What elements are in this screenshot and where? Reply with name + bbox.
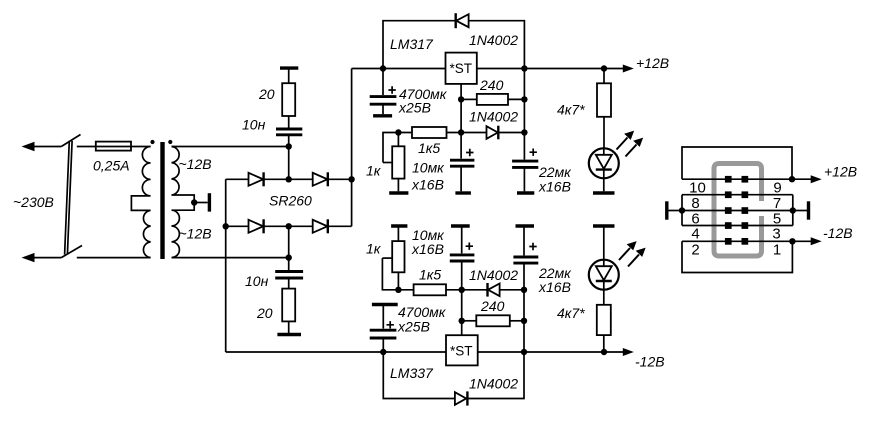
- svg-text:+12В: +12В: [824, 164, 857, 180]
- LED HL1: [589, 148, 619, 191]
- arrow -12V connector: [792, 237, 821, 245]
- terminal bar C1 ground: [373, 114, 392, 117]
- svg-text:10н: 10н: [242, 117, 266, 133]
- resistor 20 top: [282, 83, 295, 116]
- svg-text:2: 2: [691, 242, 699, 259]
- pin 6: [725, 207, 732, 214]
- svg-text:1к5: 1к5: [419, 267, 441, 283]
- capacitor C4 4700мк x25В bottom: [370, 305, 398, 353]
- wire right gnd column: [792, 195, 794, 226]
- capacitor 10н top: [276, 129, 302, 135]
- arrow +12V output: [623, 65, 634, 73]
- wire ADJ vertical bottom: [461, 290, 463, 335]
- svg-text:1N4002: 1N4002: [469, 32, 518, 48]
- wire secondary top to bridge: [172, 146, 289, 148]
- resistor R1 240: [477, 94, 508, 105]
- wire +raw rail: [352, 68, 446, 70]
- svg-text:4: 4: [691, 226, 699, 243]
- pin 8: [725, 191, 732, 198]
- node ADJ 240 left bottom: [459, 318, 465, 324]
- transformer T1 primary winding: [131, 147, 150, 258]
- wire adj row left bottom: [382, 258, 413, 290]
- wire snubber top: [288, 68, 290, 83]
- node ADJ 240 left: [458, 96, 464, 102]
- protection diode VD3 1N4002 bottom: [455, 391, 468, 405]
- node bridge plus: [348, 176, 354, 182]
- diode VD2 1N4002 middle top: [487, 126, 499, 140]
- svg-text:3: 3: [772, 226, 780, 243]
- wire row pins 6 5: [682, 210, 793, 212]
- center tap wire: [194, 202, 207, 204]
- capacitor 10н bottom: [275, 258, 303, 289]
- wire row pins 2 1: [682, 240, 792, 242]
- wire bypass diode loop top: [383, 21, 524, 69]
- svg-text:20: 20: [256, 305, 273, 321]
- wire output vertical to adj row: [523, 69, 525, 133]
- trimmer R3 1к top: [383, 133, 405, 192]
- fuse FU1 0,25A: [96, 142, 131, 151]
- resistor R8 4к7 bottom: [597, 290, 611, 352]
- wire right gnd terminal: [793, 210, 807, 212]
- node AC2: [286, 254, 292, 260]
- pin 2: [725, 238, 732, 245]
- terminal bar center tap: [208, 193, 211, 211]
- wire diode to output column: [498, 132, 524, 134]
- svg-text:1к5: 1к5: [418, 140, 440, 156]
- svg-text:7: 7: [773, 195, 781, 212]
- pin 9: [742, 176, 749, 183]
- terminal bar HL2 ground: [593, 224, 615, 227]
- node bridge AC2 bottom: [286, 223, 292, 229]
- plus sign C5: [466, 243, 473, 250]
- transformer polarity dot right: [168, 140, 172, 144]
- plus sign C4: [387, 321, 394, 328]
- node bridge AC1 top: [286, 176, 292, 182]
- terminal bar snubber bottom: [277, 333, 301, 336]
- svg-text:1N4002: 1N4002: [469, 267, 518, 283]
- svg-text:*ST: *ST: [450, 61, 473, 76]
- svg-text:LM337: LM337: [390, 365, 434, 381]
- wire connector bottom loop: [682, 241, 792, 272]
- pin 1: [742, 238, 749, 245]
- LED HL1 arrows: [617, 132, 642, 156]
- svg-text:1к: 1к: [366, 241, 382, 257]
- wire +12V output rail: [477, 68, 630, 70]
- wire resistor to terminal: [288, 321, 290, 334]
- arrow +12V connector: [792, 175, 822, 183]
- capacitor C6 22мк x16В bottom: [513, 226, 538, 290]
- node adj row left junction bottom: [395, 287, 401, 293]
- node bridge minus: [223, 223, 229, 229]
- wire bottom mains to transformer: [77, 257, 151, 259]
- wire diode to output column bottom: [500, 289, 524, 291]
- svg-text:0,25А: 0,25А: [93, 158, 130, 174]
- svg-text:х16В: х16В: [411, 177, 444, 193]
- wire 240 right lead bottom: [510, 320, 524, 322]
- svg-text:10: 10: [689, 179, 706, 196]
- connector housing: [714, 164, 762, 257]
- wire AC2 to bridge: [288, 226, 290, 257]
- svg-text:1N4002: 1N4002: [469, 376, 518, 392]
- transformer T1 secondary winding: [172, 147, 195, 258]
- wire top mains to fuse: [77, 146, 151, 148]
- resistor 20 bottom: [282, 289, 295, 322]
- node input rail cap: [380, 65, 386, 71]
- plus sign C3: [530, 149, 537, 156]
- svg-text:~12В: ~12В: [179, 156, 212, 172]
- node output rail diode bottom: [521, 349, 527, 355]
- node adj row mid junction bottom: [459, 287, 465, 293]
- terminal bar 1к ground: [389, 191, 408, 194]
- svg-text:~12В: ~12В: [179, 226, 212, 242]
- plug connector X1 blades: [61, 135, 82, 258]
- regulator U2 LM337 box: [446, 335, 478, 365]
- svg-text:SR260: SR260: [269, 193, 312, 209]
- wire AC1 to bridge: [288, 147, 290, 180]
- plus sign C6: [529, 243, 536, 250]
- svg-text:240: 240: [480, 298, 505, 314]
- wire connector top loop: [682, 147, 792, 179]
- wire bridge minus column: [225, 179, 227, 352]
- svg-text:4к7*: 4к7*: [557, 305, 585, 321]
- svg-text:10мк: 10мк: [412, 160, 445, 176]
- node +12V connector: [789, 176, 795, 182]
- svg-text:~230В: ~230В: [13, 194, 54, 210]
- svg-text:240: 240: [479, 77, 504, 93]
- bridge diode D4: [313, 219, 328, 233]
- resistor R6 1к5 bottom: [414, 284, 446, 295]
- bridge rectifier SR260 top row wire: [226, 178, 352, 180]
- wire secondary bottom to bridge: [172, 257, 289, 259]
- transformer polarity dot left: [150, 140, 154, 144]
- terminal bar snubber top: [280, 66, 298, 69]
- wire 1к5 to diode: [447, 132, 487, 134]
- pin 7: [742, 191, 749, 198]
- resistor R5 240 bottom: [476, 315, 510, 326]
- wire row pins 8 7: [682, 194, 793, 196]
- svg-text:4к7*: 4к7*: [557, 102, 585, 118]
- protection diode VD1 1N4002 top: [456, 13, 469, 28]
- svg-text:1: 1: [773, 242, 781, 259]
- plus sign C2: [466, 149, 473, 156]
- bridge diode D1: [249, 172, 264, 186]
- wire 1к5 to diode bottom: [446, 289, 487, 291]
- node input rail cap bottom: [380, 349, 386, 355]
- terminal bar C2 ground: [455, 191, 471, 194]
- wire bypass diode loop bottom: [383, 352, 524, 399]
- resistor R2 1к5 top: [412, 127, 447, 138]
- wire -12V output rail: [478, 351, 630, 353]
- svg-text:+12В: +12В: [636, 55, 669, 71]
- transformer core: [160, 142, 164, 259]
- node 240 right bottom: [521, 318, 527, 324]
- trimmer R7 1к bottom: [382, 226, 407, 290]
- wire cap to AC1: [288, 135, 290, 147]
- wire row pins 4 3: [682, 225, 793, 227]
- svg-text:8: 8: [691, 195, 699, 212]
- terminal bar left gnd: [665, 201, 668, 219]
- bridge diode D3: [249, 219, 264, 233]
- wire left gnd column: [681, 195, 683, 226]
- svg-text:х16В: х16В: [538, 279, 571, 295]
- pin 4: [725, 222, 732, 229]
- bridge rectifier SR260 bottom row wire: [226, 225, 352, 227]
- node left gnd: [679, 207, 685, 213]
- svg-text:1к: 1к: [366, 163, 382, 179]
- capacitor C3 22мк x16В top: [512, 133, 538, 192]
- terminal bar right gnd: [807, 201, 810, 219]
- wire -raw rail: [226, 351, 446, 353]
- pin 5: [742, 207, 749, 214]
- pin 10: [725, 176, 732, 183]
- svg-text:*ST: *ST: [450, 343, 473, 358]
- wire ADJ vertical: [460, 84, 462, 133]
- svg-text:х16В: х16В: [538, 179, 571, 195]
- svg-text:9: 9: [773, 179, 781, 196]
- terminal bar HL1 ground: [593, 191, 615, 194]
- node adj row left junction: [395, 129, 401, 135]
- wire output vertical bottom: [523, 290, 525, 352]
- wire adj row left: [383, 133, 412, 163]
- resistor R4 4к7 top: [597, 69, 611, 149]
- capacitor C1 4700мк x25В: [370, 69, 397, 115]
- LED HL2 arrows: [619, 243, 644, 267]
- node AC1: [286, 143, 292, 149]
- capacitor C2 10мк x16В top: [450, 133, 474, 192]
- plus sign C1: [388, 86, 395, 93]
- wire resistor to cap: [288, 116, 290, 128]
- mains input arrow top: [22, 142, 62, 151]
- svg-text:х16В: х16В: [411, 241, 444, 257]
- svg-text:х25В: х25В: [397, 319, 430, 335]
- svg-text:-12В: -12В: [635, 354, 665, 370]
- svg-text:-12В: -12В: [823, 225, 853, 241]
- wire left gnd terminal: [668, 210, 682, 212]
- capacitor C5 10мк x16В bottom: [450, 226, 475, 290]
- svg-text:х25В: х25В: [398, 100, 431, 116]
- wire row pins 10 9: [682, 178, 792, 180]
- wire 240 left lead: [461, 98, 477, 100]
- arrow -12V output: [623, 348, 634, 356]
- svg-text:20: 20: [258, 86, 275, 102]
- bridge diode D2: [313, 172, 328, 186]
- node -12V connector: [789, 238, 795, 244]
- node output rail led branch: [601, 65, 607, 71]
- node output rail led branch bottom: [601, 349, 607, 355]
- wire bridge plus column: [351, 69, 353, 227]
- terminal bar C3 ground: [517, 191, 534, 194]
- node center tap: [191, 199, 197, 205]
- regulator U1 LM317 box: [446, 53, 477, 84]
- node adj row right junction: [521, 129, 527, 135]
- node output rail diode: [521, 65, 527, 71]
- svg-text:10н: 10н: [245, 273, 269, 289]
- node adj row mid junction: [458, 129, 464, 135]
- diode VD4 1N4002 middle bottom: [488, 283, 500, 297]
- svg-text:1N4002: 1N4002: [469, 109, 518, 125]
- pin 3: [742, 222, 749, 229]
- node 240 right: [521, 96, 527, 102]
- wire 240 left lead bottom: [462, 320, 477, 322]
- svg-text:LM317: LM317: [390, 36, 434, 52]
- node right gnd: [790, 207, 796, 213]
- mains input arrow bottom: [22, 253, 62, 262]
- LED HL2: [589, 226, 619, 290]
- wire 240 right lead: [508, 98, 524, 100]
- node adj row right junction bottom: [521, 287, 527, 293]
